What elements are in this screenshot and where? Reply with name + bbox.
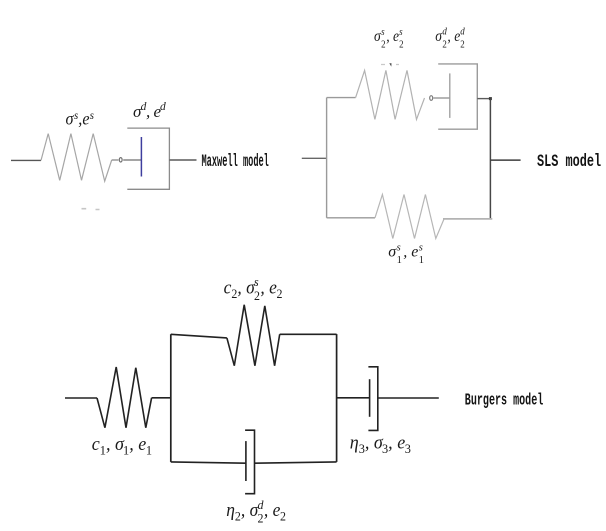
wire input: [65, 397, 97, 399]
dashpot3 cup: [368, 367, 377, 431]
svg-text:, e: , e: [260, 277, 277, 298]
svg-text:d: d: [460, 26, 465, 38]
left rail: [170, 334, 172, 462]
top branch left wire: [327, 97, 356, 99]
label eta2, sigma2^d, e2: [226, 498, 286, 526]
svg-text:, e: , e: [129, 434, 146, 456]
svg-text:, σ: , σ: [237, 277, 255, 298]
svg-text:s: s: [254, 275, 259, 290]
label c2, sigma2^s, e2: [224, 275, 283, 304]
svg-text:2: 2: [381, 39, 386, 51]
text SLS model: [537, 151, 601, 172]
top branch left wire: [171, 334, 227, 338]
wire output: [378, 397, 439, 399]
label eta3, sigma3, e3: [350, 432, 411, 456]
svg-text:1: 1: [397, 255, 402, 266]
spring S (sigma^s): [41, 134, 112, 182]
dashpot cylinder: [127, 128, 169, 189]
top branch right wire: [280, 333, 337, 335]
svg-text:s: s: [381, 26, 385, 38]
svg-text:, e: , e: [403, 244, 418, 261]
svg-text:, σ: , σ: [365, 432, 384, 454]
dashpot piston (blue): [140, 137, 142, 177]
wire output: [490, 159, 520, 161]
label sigma2^s, e2^s: [374, 26, 404, 50]
wire dashpot to rail: [477, 98, 490, 100]
label sigma^s,e^s: [66, 109, 95, 129]
svg-text:,: ,: [146, 102, 150, 121]
svg-text:η: η: [350, 432, 359, 454]
bottom branch right wire: [255, 462, 337, 463]
wire right terminal: [169, 159, 196, 161]
dashpot2 cup: [245, 430, 254, 494]
top spring (sigma2^s): [356, 70, 425, 119]
svg-text:c: c: [224, 277, 232, 298]
right rail: [489, 99, 491, 219]
svg-text:d: d: [442, 26, 447, 38]
svg-text:σ: σ: [66, 109, 75, 129]
svg-text:1: 1: [123, 443, 129, 457]
bottom branch right wire: [443, 218, 492, 220]
svg-text:2: 2: [257, 511, 263, 526]
top spring c2: [227, 305, 280, 366]
label sigma1^s, e1^s: [388, 243, 424, 266]
svg-text:3: 3: [359, 442, 365, 456]
wire spring1 to box: [152, 397, 171, 399]
svg-text:s: s: [90, 109, 95, 122]
bottom branch left wire: [327, 217, 375, 219]
svg-text:σ: σ: [374, 28, 381, 45]
left rail: [326, 98, 328, 218]
node circle top: [430, 96, 433, 101]
svg-text:s: s: [397, 243, 401, 254]
wire left terminal: [11, 159, 41, 161]
svg-text:SLS model: SLS model: [537, 151, 601, 172]
svg-text:1: 1: [146, 443, 152, 457]
svg-text:d: d: [160, 101, 166, 113]
label sigma2^d, e2^d: [435, 26, 465, 51]
stray dot: [389, 63, 391, 66]
svg-text:,e: ,e: [78, 109, 90, 129]
right rail: [336, 334, 338, 462]
svg-text:2: 2: [460, 39, 465, 51]
svg-text:, e: , e: [447, 28, 460, 45]
svg-text:2: 2: [277, 287, 283, 302]
dashpot cylinder: [438, 64, 477, 129]
text Maxwell model: [202, 152, 269, 172]
svg-text:Maxwell model: Maxwell model: [202, 152, 269, 172]
label c1, sigma1, e1: [92, 434, 152, 458]
text Burgers model: [465, 393, 543, 411]
svg-text:σ: σ: [435, 28, 442, 45]
label sigma^d, e^d: [133, 101, 166, 121]
ghost marks: [82, 208, 100, 211]
svg-text:, e: , e: [264, 499, 281, 520]
svg-text:s: s: [419, 243, 423, 254]
bottom spring (sigma1^s): [375, 195, 444, 239]
svg-text:s: s: [399, 26, 403, 38]
wire spring to node: [112, 159, 119, 161]
svg-text:3: 3: [382, 442, 388, 456]
bottom branch left wire: [171, 462, 246, 463]
svg-text:, e: , e: [388, 432, 405, 454]
dashpot2 piston: [245, 441, 247, 481]
svg-text:2: 2: [254, 289, 260, 304]
dashpot piston: [449, 73, 451, 118]
wire box to dashpot3: [337, 397, 370, 399]
wire input: [302, 157, 327, 159]
svg-text:, σ: , σ: [106, 434, 125, 456]
svg-text:Burgers model: Burgers model: [465, 393, 543, 411]
wire node to piston: [123, 159, 141, 161]
svg-text:2: 2: [399, 39, 404, 51]
svg-text:3: 3: [405, 442, 411, 456]
svg-text:2: 2: [442, 39, 447, 51]
svg-text:1: 1: [100, 443, 106, 457]
spring c1: [97, 367, 152, 428]
node circle: [119, 158, 122, 162]
svg-text:2: 2: [280, 509, 286, 524]
junction dot: [489, 97, 492, 100]
svg-text:1: 1: [419, 255, 424, 266]
dashpot3 piston: [369, 379, 371, 417]
svg-text:η: η: [226, 499, 235, 520]
wire node to piston: [433, 97, 449, 99]
svg-text:, σ: , σ: [241, 499, 259, 520]
svg-text:, e: , e: [386, 28, 399, 45]
